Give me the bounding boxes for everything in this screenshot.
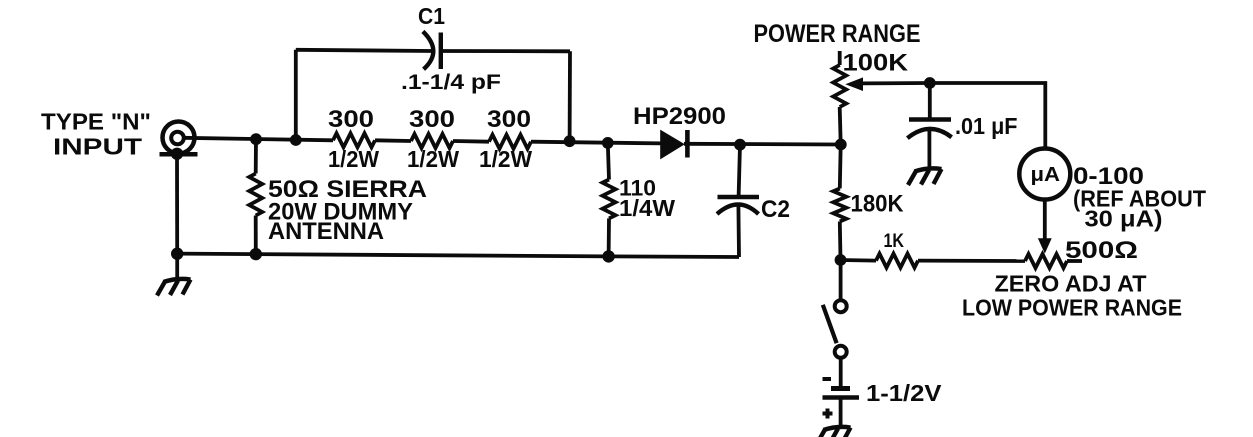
wire battery to ground (839, 398, 843, 427)
wire 110 ohm bottom lead (607, 218, 611, 256)
node junction 180K bottom / switch / 1K rail (835, 254, 847, 266)
svg-text:ZERO ADJ AT: ZERO ADJ AT (995, 271, 1147, 297)
svg-text:300: 300 (409, 106, 455, 133)
resistor R5 110 ohm 1/4W (603, 180, 616, 219)
label 0-100 (REF ABOUT 30 uA) (1073, 163, 1206, 232)
svg-text:500Ω: 500Ω (1065, 237, 1138, 264)
node junction R5 bottom on bottom rail (602, 250, 614, 262)
wire switch bottom to battery (839, 358, 843, 386)
wire switch top lead (839, 260, 843, 301)
wire 1K to 500 ohm pot (918, 259, 1025, 263)
wire 50 ohm bottom lead (254, 216, 258, 255)
svg-text:INPUT: INPUT (53, 134, 142, 160)
wire C1 top rail right segment (441, 49, 570, 53)
ground symbol at battery (817, 427, 851, 437)
wire C1 right vertical leg (568, 51, 572, 141)
capacitor C1 (423, 31, 441, 69)
wire connector to bottom rail (175, 154, 179, 254)
battery minus sign (823, 377, 832, 381)
node junction C1 left leg on main rail (290, 134, 302, 146)
battery B1 1-1/2V (823, 389, 860, 398)
connector J1 TYPE N input jack (160, 122, 198, 161)
svg-text:1-1/2V: 1-1/2V (866, 380, 942, 406)
node junction R4 bottom on bottom rail (250, 248, 262, 260)
svg-text:300: 300 (487, 106, 531, 133)
node junction R5 110 ohm top (602, 137, 614, 149)
node junction C2 top on main rail (734, 139, 746, 151)
capacitor C3 .01 uF (907, 83, 951, 169)
label 50 ohm SIERRA 20W DUMMY ANTENNA (268, 176, 427, 245)
node junction wiper rail / .01uF cap (924, 77, 936, 89)
node junction ground stub on bottom rail (171, 248, 183, 260)
wire 180K bottom lead (838, 222, 843, 261)
svg-text:ANTENNA: ANTENNA (268, 218, 384, 245)
ground symbol at input (157, 279, 191, 296)
svg-text:1/2W: 1/2W (407, 146, 459, 172)
wire 50 ohm top lead (254, 139, 258, 173)
svg-text:1K: 1K (884, 231, 905, 252)
wire main top rail from connector to R1 (183, 138, 333, 141)
wire C2 top lead (739, 145, 740, 197)
resistor R7 180K (833, 189, 846, 222)
svg-text:30 μA): 30 μA) (1085, 206, 1163, 232)
svg-text:μA: μA (1031, 164, 1061, 186)
svg-text:180K: 180K (851, 191, 905, 218)
wire C1 top rail left segment (296, 50, 433, 51)
wire between R2 and R3 (453, 139, 489, 143)
svg-text:.01 μF: .01 μF (955, 113, 1018, 139)
node junction main rail / pot bottom / 180K (835, 139, 847, 151)
wire from junction to 1K (841, 258, 877, 262)
potentiometer R6 100K power range (833, 51, 846, 145)
capacitor C2 (717, 197, 759, 214)
wiper arrow into 500 ohm pot (1038, 238, 1052, 253)
diode CR1 HP2900 (660, 130, 687, 160)
node junction at connector rail / R4 dummy load top (250, 133, 262, 145)
wire 180K top lead (838, 145, 843, 189)
switch S1 (823, 300, 847, 358)
battery plus sign (823, 409, 833, 419)
wire 110 ohm top lead (608, 143, 609, 180)
potentiometer R9 500 ohm zero adjust (1025, 254, 1067, 268)
wire wiper rail to meter corner (930, 83, 1045, 150)
label TYPE "N" INPUT (41, 109, 151, 160)
wire ground stub below bottom rail (175, 254, 179, 279)
resistor R3 300 ohm (489, 135, 531, 149)
resistor R8 1K (876, 254, 918, 268)
wire from diode cathode to power-range junction (684, 142, 841, 146)
wire C2 bottom lead (737, 205, 741, 257)
svg-text:.1-1/4 pF: .1-1/4 pF (401, 71, 501, 94)
node junction C1 right leg on main rail (564, 135, 576, 147)
resistor R1 300 ohm (333, 133, 375, 147)
resistor R2 300 ohm (411, 134, 453, 148)
svg-text:300: 300 (328, 106, 374, 133)
wiper arrow of R6 (845, 77, 930, 91)
wire bottom ground rail (177, 254, 739, 257)
svg-text:TYPE "N": TYPE "N" (41, 109, 151, 135)
svg-text:LOW POWER RANGE: LOW POWER RANGE (962, 295, 1182, 321)
meter M1 microammeter (1019, 149, 1070, 200)
svg-text:1/2W: 1/2W (479, 146, 532, 172)
svg-text:HP2900: HP2900 (633, 103, 726, 130)
svg-text:POWER RANGE: POWER RANGE (754, 20, 921, 48)
wire between R1 and R2 (375, 138, 411, 142)
resistor R4 50 ohm dummy antenna (249, 174, 262, 216)
svg-text:1/4W: 1/4W (619, 195, 675, 221)
svg-text:C2: C2 (761, 196, 790, 223)
svg-text:C1: C1 (418, 3, 445, 29)
svg-text:1/2W: 1/2W (328, 146, 379, 172)
wire from R3 to diode anode (531, 142, 662, 144)
wire meter bottom to wiper arrow of R9 (1043, 200, 1047, 242)
ground symbol at C3 (908, 168, 942, 185)
wire right end after 500 ohm pot (1067, 259, 1082, 263)
svg-text:100K: 100K (843, 50, 909, 77)
wire C1 left vertical leg (294, 50, 298, 140)
